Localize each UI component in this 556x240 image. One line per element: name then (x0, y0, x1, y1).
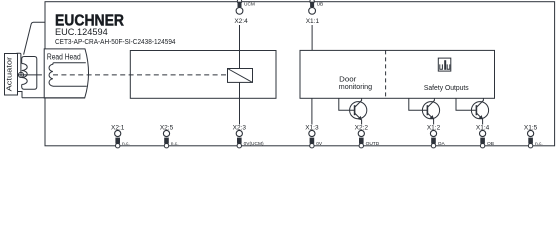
svg-text:X2:1: X2:1 (111, 125, 125, 132)
svg-text:X1:2: X1:2 (427, 125, 441, 132)
svg-text:n.c.: n.c. (171, 142, 179, 147)
svg-text:EUC.124594: EUC.124594 (55, 27, 108, 38)
svg-text:0V(UCM): 0V(UCM) (244, 141, 264, 147)
svg-text:Safety Outputs: Safety Outputs (424, 85, 469, 92)
svg-text:OB: OB (487, 141, 494, 147)
svg-text:OUTD: OUTD (366, 141, 380, 147)
svg-text:X2:2: X2:2 (355, 125, 369, 132)
svg-text:UCM: UCM (244, 2, 255, 8)
svg-text:X1:3: X1:3 (305, 125, 319, 132)
svg-text:X2:3: X2:3 (233, 125, 247, 132)
svg-text:UB: UB (317, 2, 324, 8)
svg-text:X2:5: X2:5 (160, 125, 174, 132)
svg-text:CET3-AP-CRA-AH-50F-SI-C2438-12: CET3-AP-CRA-AH-50F-SI-C2438-124594 (55, 39, 176, 46)
svg-text:n.c.: n.c. (122, 142, 130, 147)
svg-text:X1:4: X1:4 (476, 125, 490, 132)
svg-text:Door: Door (339, 77, 357, 84)
svg-text:monitoring: monitoring (339, 84, 372, 91)
svg-text:X2:4: X2:4 (234, 18, 248, 25)
svg-text:Read Head: Read Head (47, 53, 81, 62)
svg-text:OA: OA (438, 141, 446, 147)
svg-text:X1:5: X1:5 (524, 125, 538, 132)
svg-text:0V: 0V (316, 141, 323, 147)
svg-text:n.c.: n.c. (535, 142, 543, 147)
svg-text:X1:1: X1:1 (306, 18, 320, 25)
svg-text:Actuator: Actuator (4, 56, 13, 91)
